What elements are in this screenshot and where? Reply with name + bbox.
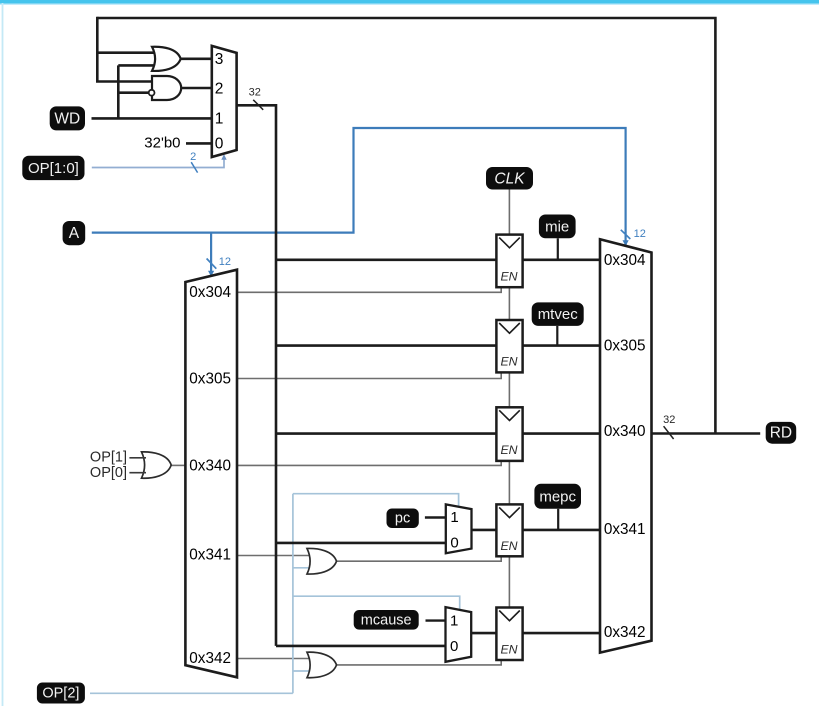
svg-text:OP[0]: OP[0] <box>90 465 127 481</box>
svg-text:pc: pc <box>395 511 410 527</box>
svg-text:0x342: 0x342 <box>189 650 231 667</box>
svg-text:32: 32 <box>249 86 261 98</box>
svg-text:1: 1 <box>215 110 224 127</box>
wire EN decode 0x305 to register mtvec <box>237 372 501 379</box>
wire OP[2] to mcause or-gate <box>293 670 312 672</box>
svg-text:OP[1:0]: OP[1:0] <box>28 160 79 177</box>
register mtvec <box>496 320 522 372</box>
wire CLK clock line <box>508 190 510 608</box>
inverter bubble <box>149 90 155 96</box>
or-gate EN mepc <box>307 548 337 574</box>
wire register mepc to output mux <box>522 529 601 532</box>
wire register mie to output mux <box>522 258 601 261</box>
svg-text:1: 1 <box>450 509 458 526</box>
port label OP[1:0] <box>22 156 84 180</box>
wire pc mux to register mepc <box>471 529 497 532</box>
port label RD <box>766 422 797 444</box>
svg-text:2: 2 <box>190 151 196 163</box>
wire WD to or-gate input <box>118 64 155 67</box>
net label mcause <box>354 610 419 630</box>
net label mepc <box>534 484 581 509</box>
svg-text:RD: RD <box>770 425 792 442</box>
wire RD feedback top <box>97 18 715 434</box>
wire A address <box>92 128 626 246</box>
register mcause <box>496 608 522 661</box>
svg-text:WD: WD <box>54 111 80 128</box>
decoder address <box>185 270 237 678</box>
mux pc 2:1 <box>446 504 472 553</box>
svg-text:2: 2 <box>215 80 224 97</box>
wire EN decode 0x304 to register mie <box>237 287 501 293</box>
register 0x340 <box>496 407 522 461</box>
port label A <box>63 221 86 245</box>
svg-text:0x341: 0x341 <box>189 547 231 564</box>
mux M1 4:1 write-select <box>212 46 237 157</box>
wire WD to and-gate bubble <box>118 91 148 94</box>
wire mux output write bus <box>237 105 276 646</box>
net label mtvec <box>532 302 584 326</box>
register mie <box>496 235 522 288</box>
wire OP[1:0] to mux select <box>92 156 224 168</box>
wire OP[2] vertical riser <box>292 494 294 694</box>
svg-text:mtvec: mtvec <box>538 306 579 323</box>
svg-text:0x305: 0x305 <box>604 337 646 354</box>
wire WD <box>92 117 212 120</box>
input stub OP[0] <box>129 472 146 474</box>
wire feedback to or-gate input <box>97 51 155 54</box>
svg-text:0: 0 <box>450 638 458 655</box>
svg-text:3: 3 <box>215 51 224 68</box>
wire row3 data to register <box>276 432 497 435</box>
register mepc <box>496 504 522 556</box>
input stub OP[1] <box>129 457 146 459</box>
svg-text:32: 32 <box>663 414 675 426</box>
wire WD branch vertical <box>117 65 120 118</box>
svg-text:EN: EN <box>500 443 517 457</box>
svg-text:1: 1 <box>450 612 458 629</box>
or-gate OP[1] OP[0] <box>142 452 172 478</box>
wire decode 0x341 to or-gate <box>237 555 312 557</box>
wire row1 data to register mie <box>276 258 497 261</box>
net label pc <box>387 509 419 529</box>
svg-text:12: 12 <box>219 256 231 268</box>
wire decode 0x342 to or-gate <box>237 658 312 660</box>
svg-text:0x340: 0x340 <box>604 423 646 440</box>
wire OP[2] from label <box>90 692 293 694</box>
svg-text:mie: mie <box>545 218 569 235</box>
svg-text:0x342: 0x342 <box>604 624 646 641</box>
svg-text:CLK: CLK <box>494 170 525 187</box>
or-gate EN mcause <box>307 652 337 678</box>
svg-text:EN: EN <box>500 539 517 553</box>
bus slash 12 left <box>207 259 217 269</box>
svg-text:0x304: 0x304 <box>604 252 646 269</box>
svg-text:mepc: mepc <box>539 488 576 505</box>
wire row2 data to register mtvec <box>276 344 497 347</box>
svg-text:32'b0: 32'b0 <box>144 135 180 152</box>
wire RD output <box>652 432 761 435</box>
wire or-gate to mux input 3 <box>178 57 212 60</box>
svg-text:0x305: 0x305 <box>189 370 231 387</box>
wire OP[2] to mepc or-gate <box>293 567 312 569</box>
svg-text:OP[1]: OP[1] <box>90 450 127 466</box>
wire and-gate to mux input 2 <box>180 87 212 90</box>
wire row5 data to mcause mux input 0 <box>276 645 446 648</box>
port label OP[2] <box>37 683 85 704</box>
arrowhead A decoder select <box>208 271 214 277</box>
wire or-gate output to register mepc EN <box>334 556 501 562</box>
wire OP[1]|OP[0] or-gate output to decoder <box>170 464 186 466</box>
bus slash 32 top <box>253 100 263 110</box>
wire feedback left drop to and-gate <box>97 17 153 82</box>
wire 32'b0 to mux input 0 <box>186 142 212 145</box>
wire or-gate output to register mcause EN <box>334 658 501 665</box>
wire OP[2] to pc mux select <box>293 494 459 507</box>
or-gate feedback/WD <box>152 47 181 71</box>
svg-text:0x341: 0x341 <box>604 521 646 538</box>
wire OP[2] to mcause mux select <box>293 596 460 609</box>
mux output 5:1 read-select <box>600 239 652 652</box>
wire A branch to decoder select <box>210 233 212 276</box>
arrowhead OP[1:0] select <box>221 154 226 160</box>
wire mcause to mcause mux input 1 <box>426 619 447 621</box>
mux mcause 2:1 <box>446 607 472 662</box>
svg-text:A: A <box>69 225 80 242</box>
svg-text:0x340: 0x340 <box>189 457 231 474</box>
port label WD <box>50 106 85 130</box>
svg-text:12: 12 <box>634 228 646 240</box>
arrowhead A mux select <box>623 240 629 246</box>
svg-text:mcause: mcause <box>361 612 412 628</box>
wire mepc label stub <box>557 509 559 530</box>
bus slash 2 <box>191 162 197 172</box>
svg-text:OP[2]: OP[2] <box>42 685 79 701</box>
wire register mtvec to output mux <box>522 344 601 347</box>
wire pc to pc mux input 1 <box>425 516 446 518</box>
wire register 0x340 to output mux <box>522 432 601 435</box>
wire register 0x342 to output mux <box>522 632 601 635</box>
svg-text:EN: EN <box>500 270 517 284</box>
wire mie label stub <box>557 238 559 259</box>
wire row4 data to pc mux input 0 <box>276 542 446 545</box>
bus slash 12 right <box>621 230 631 239</box>
wire EN decode 0x340 to register <box>237 460 501 465</box>
svg-text:0x304: 0x304 <box>189 284 231 301</box>
svg-text:EN: EN <box>500 355 517 369</box>
net label mie <box>539 215 576 239</box>
wire mcause mux to register <box>471 632 497 635</box>
bus slash 32 right <box>664 426 674 439</box>
port label CLK <box>486 167 533 190</box>
svg-text:0: 0 <box>450 535 458 552</box>
svg-text:EN: EN <box>500 643 517 657</box>
wire mtvec label stub <box>556 326 558 346</box>
svg-text:0: 0 <box>215 135 224 152</box>
and-gate with inverted input <box>152 76 181 100</box>
